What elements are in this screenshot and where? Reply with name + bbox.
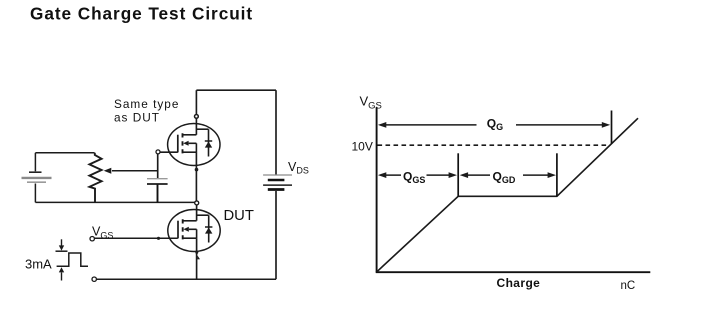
svg-text:QGD: QGD [493, 169, 516, 185]
wire bottom rail [96, 278, 276, 280]
wire gate node vertical (circle to capacitor) [157, 154, 159, 178]
node mid (open circle between FETs) [195, 201, 199, 205]
mosfet Q2 DUT [168, 210, 220, 252]
battery VDS supply [263, 175, 292, 190]
svg-text:Charge: Charge [497, 276, 541, 290]
svg-text:QGS: QGS [403, 169, 425, 185]
capacitor C1 [147, 179, 168, 203]
battery B1 gate bias [22, 153, 52, 203]
QGD arrow [460, 172, 556, 178]
svg-text:nC: nC [621, 280, 636, 292]
junction dot on gate wire [157, 237, 160, 240]
pulse waveform symbol [56, 251, 89, 266]
wire source of Q1 down to mid node [195, 152, 197, 203]
annotation arrow down (pulse top) [61, 239, 63, 246]
potentiometer wiper arrow [112, 170, 158, 172]
QG arrow [378, 122, 610, 128]
tick end of QGS (plateau start) [457, 153, 459, 196]
wire gate lead of Q1 [160, 151, 178, 153]
svg-text:DUT: DUT [224, 208, 254, 224]
y-axis [376, 107, 378, 272]
node drain terminal of Q1 (open dot) [195, 115, 199, 119]
junction dot on Q2 source at ellipse [195, 251, 198, 254]
wire left-loop top rail [35, 152, 94, 154]
wire gate of Q2 (VGS line) [94, 237, 177, 239]
svg-text:10V: 10V [352, 140, 373, 154]
wire drain of Q1 [195, 90, 197, 135]
wire source of Q2 [196, 238, 198, 279]
tick end of QG [611, 111, 613, 145]
tick end of QGD (plateau end) [556, 153, 558, 196]
terminal open circle VGS [90, 237, 94, 241]
dashed 10V line [378, 144, 611, 146]
junction dot on Q1 source [195, 168, 199, 172]
wire left-loop bottom rail [35, 201, 195, 203]
wire top rail [196, 89, 276, 91]
wire right rail lower [275, 191, 277, 279]
svg-text:VDS: VDS [288, 160, 309, 176]
svg-text:VGS: VGS [360, 94, 382, 112]
wire right rail upper [275, 90, 277, 174]
svg-text:Same type: Same type [114, 97, 179, 111]
potentiometer R1 [89, 153, 101, 203]
x-axis [376, 271, 651, 273]
node gate terminal of Q1 (open circle) [156, 150, 160, 154]
svg-text:as DUT: as DUT [114, 111, 160, 125]
svg-text:Gate Charge Test Circuit: Gate Charge Test Circuit [30, 4, 253, 24]
terminal open circle bottom-left [92, 277, 96, 281]
annotation arrow up (pulse base) [61, 273, 63, 281]
wire drain of Q2 [196, 205, 198, 221]
QGS arrow [378, 172, 457, 178]
small arrowhead on Q2 source wire [197, 255, 200, 259]
mosfet Q1 same type as DUT [168, 124, 220, 166]
gate charge curve [377, 118, 638, 272]
svg-text:QG: QG [487, 116, 503, 132]
svg-text:3mA: 3mA [25, 257, 52, 272]
